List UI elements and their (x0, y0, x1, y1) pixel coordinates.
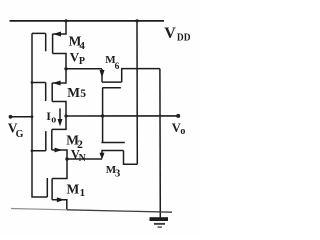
label M2 (66, 132, 83, 151)
wire: M6 drain branch down to ground (159, 69, 161, 218)
node: gate-line/output junction dot (101, 114, 104, 117)
ground rail (11, 209, 172, 213)
node: VDD-right-branch junction dot (135, 19, 138, 22)
svg-text:o: o (180, 126, 185, 137)
node: output junction dot on column (64, 114, 67, 117)
svg-text:V: V (164, 25, 176, 42)
label M6 (105, 54, 119, 72)
node: bus junction dots (31, 81, 34, 84)
node VP junction dot (64, 67, 67, 70)
wire: output line to Vo terminal (66, 115, 178, 117)
wire: M2 source to node VN (52, 150, 67, 159)
svg-text:3: 3 (115, 169, 120, 180)
transistor M2 (NMOS) (46, 129, 63, 152)
wire: M5 drain down through output junction to M2 drain (52, 102, 66, 130)
svg-text:4: 4 (79, 40, 85, 52)
transistor M3 (NMOS, drawn rotated) (100, 143, 138, 165)
node: VDD-column junction dot (64, 19, 67, 22)
svg-text:o: o (51, 114, 56, 125)
svg-text:P: P (79, 56, 85, 67)
label M1 (67, 181, 86, 199)
wire: gate bus from VG (32, 33, 47, 197)
label Vo (172, 121, 186, 137)
terminal VG (9, 115, 32, 119)
svg-text:5: 5 (80, 88, 86, 100)
ground symbol (150, 217, 169, 228)
wire: VN column to M1 drain (52, 159, 67, 179)
label VG (8, 121, 24, 141)
label VN (71, 148, 87, 165)
wire: VP column to M5 source (52, 69, 66, 83)
svg-text:DD: DD (177, 32, 191, 43)
wire: VP to M6 source (66, 68, 102, 70)
label VDD (164, 25, 191, 43)
transistor M1 (NMOS) (47, 178, 65, 202)
label VP (70, 50, 85, 68)
label M3 (106, 164, 120, 180)
svg-text:M: M (67, 85, 80, 100)
transistor M5 (PMOS) (46, 81, 61, 102)
node VN junction dot (65, 157, 68, 160)
wire: M6/M3 gate line to output rail (102, 88, 104, 143)
current source annotation I0 arrow (58, 108, 63, 126)
wire: column from VDD rail to M4 source (53, 21, 66, 34)
wire: M4 drain to node VP (53, 54, 66, 69)
label M4 (69, 34, 86, 53)
wire: VN to M3 source (67, 158, 102, 160)
transistor M6 (PMOS, drawn rotated) (100, 69, 160, 88)
transistor M4 (PMOS) (46, 32, 61, 54)
svg-text:G: G (16, 129, 24, 140)
svg-text:1: 1 (80, 187, 86, 199)
wire: M1 source to ground rail (52, 200, 67, 210)
power rail VDD (10, 20, 165, 22)
svg-text:6: 6 (115, 62, 120, 72)
label M5 (67, 85, 86, 100)
terminal Vo dot (176, 114, 180, 118)
wire: VDD right branch down to M3 drain (136, 21, 138, 164)
svg-text:M: M (67, 181, 80, 196)
label I0 (46, 109, 56, 126)
